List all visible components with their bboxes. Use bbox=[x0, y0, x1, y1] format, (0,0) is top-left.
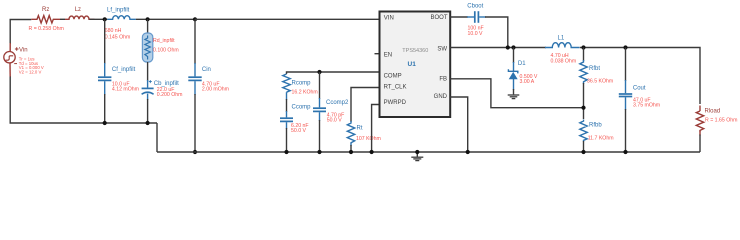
wire Cf branch lower bbox=[104, 94, 106, 123]
ground rail wire bbox=[157, 151, 700, 153]
junction Ccomp2 tap on COMP bbox=[317, 70, 321, 74]
voltage source V1 +Vin bbox=[4, 43, 19, 77]
resistor Rz bbox=[31, 16, 60, 23]
wire Vout rail bbox=[580, 48, 700, 105]
wire Cin branch lower bbox=[194, 94, 196, 152]
resistor Rd_inpfilt (damping, pill body) bbox=[142, 33, 152, 62]
resistor Rt bbox=[347, 121, 354, 146]
junction Ccomp2-ground-rail bbox=[317, 150, 321, 154]
svg-text:Cf_inpfilt: Cf_inpfilt bbox=[112, 67, 136, 73]
node B junction bbox=[146, 17, 150, 21]
inductor L1 bbox=[545, 43, 579, 48]
capacitor Cout bbox=[619, 80, 632, 110]
capacitor Ccomp bbox=[280, 111, 293, 129]
svg-text:Rz: Rz bbox=[42, 7, 49, 13]
junction Rt-ground-rail bbox=[349, 150, 353, 154]
capacitor Cboot bbox=[467, 11, 486, 23]
svg-text:16.2 KOhm: 16.2 KOhm bbox=[292, 89, 318, 95]
wire COMP net bbox=[287, 72, 380, 74]
junction ground-rail bbox=[415, 150, 419, 154]
wire Vin bottom to left rail bbox=[10, 77, 157, 124]
wire SW net bbox=[450, 47, 546, 49]
resistor Rfbt bbox=[580, 60, 587, 84]
svg-text:SW: SW bbox=[437, 47, 447, 53]
svg-text:GND: GND bbox=[434, 94, 448, 100]
wire Rz to Lz bbox=[60, 18, 65, 20]
svg-text:11.7 KOhm: 11.7 KOhm bbox=[588, 135, 614, 141]
svg-text:BOOT: BOOT bbox=[430, 15, 447, 21]
wire Rd branch upper bbox=[147, 19, 149, 34]
svg-text:3.75 mOhm: 3.75 mOhm bbox=[633, 103, 660, 109]
capacitor Cin bbox=[188, 63, 201, 95]
svg-text:COMP: COMP bbox=[384, 74, 402, 80]
junction D1-SW bbox=[511, 45, 515, 49]
wire GND pin to ground rail bbox=[450, 97, 468, 152]
resistor Rfbb bbox=[580, 120, 587, 142]
wire Cboot to SW node bbox=[485, 17, 508, 48]
inductor Lf_inpfilt bbox=[107, 16, 136, 20]
wire Ccomp2 branch upper bbox=[319, 72, 321, 99]
svg-text:Cin: Cin bbox=[202, 67, 211, 73]
svg-text:4.12 mOhm: 4.12 mOhm bbox=[112, 87, 139, 93]
svg-text:VIN: VIN bbox=[384, 16, 394, 22]
svg-text:Cb_inpfilt: Cb_inpfilt bbox=[154, 81, 179, 87]
wire left rail drop to ground rail bbox=[156, 123, 158, 152]
wire Rfbb to ground rail bbox=[583, 141, 585, 152]
wire Rd to Cb bbox=[147, 62, 149, 81]
resistor Rcomp bbox=[283, 74, 290, 100]
svg-text:107 KOhm: 107 KOhm bbox=[356, 136, 381, 142]
pin stub EN bbox=[375, 53, 380, 55]
junction Cf-bottom bbox=[103, 121, 107, 125]
svg-text:Rcomp: Rcomp bbox=[292, 81, 312, 87]
junction Cb-bottom bbox=[146, 121, 150, 125]
wire Lf to node B bbox=[136, 18, 195, 20]
svg-text:36.5 KOhm: 36.5 KOhm bbox=[587, 78, 613, 84]
svg-text:Lz: Lz bbox=[75, 7, 81, 13]
svg-text:Ccomp: Ccomp bbox=[292, 105, 312, 111]
svg-text:680 nH: 680 nH bbox=[105, 28, 122, 34]
junction Cin-ground-rail bbox=[193, 150, 197, 154]
wire Cin branch upper bbox=[194, 19, 196, 64]
inductor Lz bbox=[65, 16, 95, 19]
capacitor Ccomp2 bbox=[313, 98, 326, 121]
svg-text:D1: D1 bbox=[518, 61, 526, 67]
ground symbol (D1) bbox=[508, 89, 520, 99]
junction Cout-ground-rail bbox=[623, 150, 627, 154]
wire FB net bbox=[450, 79, 583, 108]
svg-text:Rload: Rload bbox=[705, 108, 721, 114]
wire Cout to ground rail bbox=[625, 109, 627, 152]
svg-text:Rt: Rt bbox=[357, 125, 363, 131]
capacitor Cb_inpfilt (polarized) bbox=[142, 80, 154, 100]
op-amp U1 TPS54360 body bbox=[380, 12, 451, 118]
svg-text:50.0 V: 50.0 V bbox=[291, 128, 307, 134]
resistor Rload bbox=[696, 106, 703, 136]
ground symbol (main rail) bbox=[411, 152, 423, 161]
svg-text:3.00 A: 3.00 A bbox=[520, 79, 535, 85]
node A junction bbox=[103, 17, 107, 21]
junction L1-Rfbt (Vout node) bbox=[581, 45, 585, 49]
svg-text:0.100 Ohm: 0.100 Ohm bbox=[153, 47, 179, 53]
svg-text:EN: EN bbox=[384, 53, 392, 59]
svg-text:Rfbb: Rfbb bbox=[589, 122, 602, 128]
svg-text:Rfbt: Rfbt bbox=[589, 66, 600, 72]
wire D1 branch upper bbox=[513, 48, 515, 64]
wire Ccomp2 to ground rail bbox=[319, 120, 321, 152]
wire top-left corner from Vin to Rz bbox=[10, 20, 31, 45]
svg-text:TPS54360: TPS54360 bbox=[402, 48, 428, 54]
wire Cout branch upper bbox=[625, 48, 627, 82]
wire Rfbt to FB node bbox=[583, 83, 585, 119]
svg-text:R = 0.258 Ohm: R = 0.258 Ohm bbox=[29, 26, 64, 32]
svg-text:2.00 mOhm: 2.00 mOhm bbox=[202, 87, 229, 93]
wire PWRPD to ground rail bbox=[372, 105, 380, 153]
wire Rfbt branch upper bbox=[583, 48, 585, 62]
junction PWRPD-ground-rail bbox=[370, 150, 374, 154]
wire Rload to ground rail bbox=[699, 135, 701, 153]
svg-text:FB: FB bbox=[439, 76, 447, 82]
svg-text:R = 1.65 Ohm: R = 1.65 Ohm bbox=[705, 117, 737, 123]
junction Cboot-SW bbox=[506, 45, 510, 49]
svg-text:V2 = 12.0 V: V2 = 12.0 V bbox=[19, 70, 42, 75]
svg-text:Cboot: Cboot bbox=[467, 3, 483, 9]
svg-text:10.0 V: 10.0 V bbox=[468, 31, 484, 37]
wire Lz to node A bbox=[90, 18, 108, 20]
svg-text:Rd_inpfilt: Rd_inpfilt bbox=[153, 38, 175, 44]
diode D1 (schottky) bbox=[508, 62, 517, 90]
junction FB node bbox=[581, 106, 585, 110]
svg-text:0.200 Ohm: 0.200 Ohm bbox=[157, 92, 183, 98]
svg-text:Lf_inpfilt: Lf_inpfilt bbox=[107, 8, 130, 14]
wire Ccomp to ground rail bbox=[286, 128, 288, 152]
junction Cout tap bbox=[623, 45, 627, 49]
junction Ccomp-ground-rail bbox=[284, 150, 288, 154]
svg-text:0.038 Ohm: 0.038 Ohm bbox=[551, 59, 577, 65]
svg-text:50.0 V: 50.0 V bbox=[327, 117, 343, 123]
wire Cf branch upper bbox=[104, 19, 106, 64]
junction Rfbb-ground-rail bbox=[581, 150, 585, 154]
wire RT_CLK net bbox=[351, 88, 380, 123]
capacitor Cf_inpfilt bbox=[98, 63, 111, 95]
svg-text:RT_CLK: RT_CLK bbox=[384, 84, 407, 90]
svg-text:Cout: Cout bbox=[633, 85, 646, 91]
svg-text:0.145 Ohm: 0.145 Ohm bbox=[105, 34, 131, 40]
svg-text:PWRPD: PWRPD bbox=[384, 100, 407, 106]
junction GND-ground-rail bbox=[466, 150, 470, 154]
svg-text:L1: L1 bbox=[558, 35, 565, 41]
wire Rcomp to Ccomp bbox=[286, 99, 288, 112]
wire node C to VIN pin bbox=[195, 18, 380, 20]
node C junction (Cin tap) bbox=[193, 17, 197, 21]
wire BOOT net bbox=[450, 16, 468, 18]
wire Rt to ground rail bbox=[350, 145, 352, 152]
svg-text:Vin: Vin bbox=[19, 47, 28, 53]
svg-text:U1: U1 bbox=[408, 61, 417, 68]
svg-text:Ccomp2: Ccomp2 bbox=[326, 100, 349, 106]
wire Cb branch lower bbox=[147, 99, 149, 123]
